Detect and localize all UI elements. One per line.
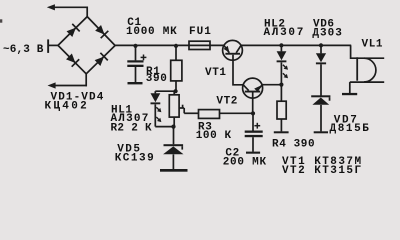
- svg-text:Д303: Д303: [312, 28, 342, 40]
- label R2 2 K: [111, 123, 153, 135]
- resistor R4: [277, 85, 286, 132]
- wire rail to VL1: [351, 45, 385, 58]
- label VT1 KT837M: [282, 156, 363, 168]
- svg-text:КЦ402: КЦ402: [45, 100, 90, 112]
- label VD5: [117, 144, 141, 156]
- diode VD4: [94, 53, 108, 67]
- label C1: [127, 17, 141, 29]
- fuse FU1: [189, 41, 224, 49]
- label VT2 KT315G: [282, 165, 363, 177]
- diode VD1: [66, 24, 80, 38]
- diode VD3: [65, 53, 79, 67]
- ground C1: [128, 82, 143, 84]
- wire rail bridge to FU1: [115, 44, 190, 46]
- wire R3 to VT2 base node: [220, 112, 254, 114]
- wire VL1 to ground: [349, 82, 351, 93]
- label VL1: [362, 39, 384, 51]
- label VD7: [334, 115, 359, 127]
- label VD6: [313, 18, 335, 30]
- node VT2e/HL2/R4 junction: [279, 83, 283, 87]
- wire bridge bottom: [85, 73, 87, 86]
- zener diode VD7: [311, 95, 330, 131]
- svg-text:~6,3 В: ~6,3 В: [3, 44, 44, 56]
- wire node to HL1: [155, 90, 176, 92]
- label AL307 top: [264, 27, 306, 39]
- svg-text:FU1: FU1: [189, 26, 212, 38]
- label VT2: [216, 96, 238, 108]
- svg-text:VT1: VT1: [205, 67, 227, 79]
- arrow AC top: [47, 4, 88, 10]
- wire input to bridge: [49, 44, 59, 46]
- svg-text:R2 2 К: R2 2 К: [111, 123, 153, 135]
- bridge rectifier VD1-VD4 outline: [58, 17, 115, 74]
- trimmer resistor R2: [169, 91, 184, 126]
- node C1 junction: [133, 44, 137, 48]
- label KS139: [115, 152, 156, 164]
- wire top arrow to bridge: [86, 7, 88, 17]
- label C2: [225, 147, 239, 159]
- label 1000 MK: [126, 26, 177, 38]
- terminal C2: [246, 152, 260, 154]
- svg-text:VT2: VT2: [216, 96, 238, 108]
- label VD1-VD4: [51, 91, 105, 103]
- ground VD5: [160, 169, 188, 172]
- wire R2 wiper to R3: [184, 112, 198, 114]
- LED HL1: [151, 91, 162, 126]
- transistor VT1: [223, 40, 243, 60]
- wire VT2 base: [252, 93, 254, 114]
- label D815B: [330, 123, 371, 135]
- svg-text:390: 390: [146, 73, 168, 85]
- label D303: [312, 28, 342, 40]
- terminal AC input: [47, 39, 49, 53]
- svg-text:R4 390: R4 390: [272, 138, 315, 150]
- resistor R3: [199, 110, 220, 119]
- scan speck: [0, 19, 2, 22]
- wire rail VT1 to VL1: [241, 44, 351, 46]
- node R1/HL1/R2 junction: [174, 89, 178, 93]
- arrow AC bottom: [48, 82, 88, 88]
- label 390: [146, 73, 168, 85]
- node R2/VD5 junction: [171, 125, 175, 129]
- node R1 junction: [174, 44, 178, 48]
- capacitor C2: [245, 113, 263, 151]
- terminal R4 output: [274, 131, 289, 133]
- zener diode VD5: [163, 127, 183, 170]
- svg-text:VL1: VL1: [362, 39, 384, 51]
- label HL2: [264, 18, 286, 30]
- wire VT1 base to VT2: [233, 55, 243, 85]
- label FU1: [189, 26, 212, 38]
- label AL307 mid: [111, 113, 150, 125]
- label 100 K: [196, 130, 232, 142]
- label HL1: [111, 105, 133, 117]
- resistor R1: [171, 46, 182, 91]
- svg-text:1000 МК: 1000 МК: [126, 26, 177, 38]
- label VT1: [205, 67, 227, 79]
- wire HL1 to node: [155, 126, 173, 128]
- tube VL1 heater: [350, 57, 384, 82]
- capacitor C1: [127, 46, 146, 82]
- node R3/C2 junction: [251, 111, 255, 115]
- svg-text:Д815Б: Д815Б: [330, 123, 371, 135]
- ground VL1: [342, 93, 357, 95]
- label ~6,3 V input: [3, 44, 44, 56]
- label KC402: [45, 100, 90, 112]
- terminal VD7 output: [314, 131, 328, 133]
- node HL2 junction: [279, 43, 283, 47]
- svg-text:200 МК: 200 МК: [223, 156, 267, 168]
- diode VD6: [316, 45, 326, 95]
- label R1: [146, 66, 160, 78]
- node VD6 junction: [319, 43, 323, 47]
- svg-text:100 К: 100 К: [196, 130, 232, 142]
- svg-text:VT2 КТ315Г: VT2 КТ315Г: [282, 165, 363, 177]
- label R4 390: [272, 138, 315, 150]
- diode VD2: [94, 24, 108, 38]
- svg-text:АЛ307: АЛ307: [264, 27, 306, 39]
- wire VT2 emitter: [262, 84, 281, 86]
- svg-text:КС139: КС139: [115, 152, 156, 164]
- label R3: [198, 121, 212, 133]
- LED HL2: [277, 45, 288, 84]
- label 200 MK: [223, 156, 267, 168]
- transistor VT2: [243, 78, 263, 98]
